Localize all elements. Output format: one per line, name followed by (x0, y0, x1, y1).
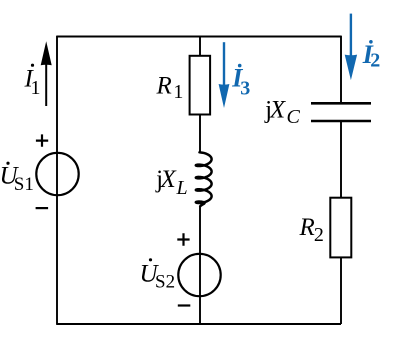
svg-text:L: L (176, 177, 188, 199)
svg-text:1: 1 (173, 81, 183, 103)
svg-text:2: 2 (370, 50, 380, 72)
svg-text:R: R (156, 73, 172, 100)
svg-text:R: R (299, 214, 315, 241)
svg-text:X: X (269, 97, 287, 124)
svg-text:S2: S2 (155, 272, 175, 293)
svg-text:X: X (160, 166, 178, 193)
svg-text:2: 2 (314, 224, 324, 246)
svg-text:S1: S1 (14, 174, 34, 195)
svg-text:C: C (287, 106, 301, 128)
svg-text:1: 1 (31, 77, 41, 99)
svg-text:3: 3 (240, 77, 250, 99)
